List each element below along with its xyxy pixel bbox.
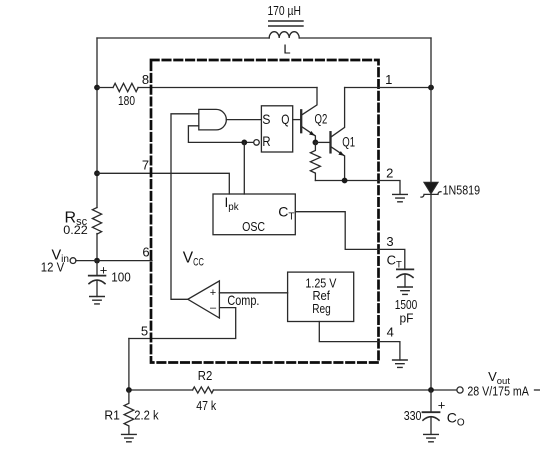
wire pin 8: [97, 87, 317, 89]
node: pin1 / output rail: [428, 85, 434, 91]
svg-text:R: R: [262, 133, 270, 149]
wire: AND lower input from R line: [188, 126, 254, 143]
IC dashed box: [151, 60, 379, 363]
svg-text:Q2: Q2: [315, 112, 328, 127]
svg-text:2.2 k: 2.2 k: [134, 408, 159, 423]
AND gate U1a: [199, 109, 227, 129]
svg-text:Comp.: Comp.: [227, 292, 259, 308]
resistor (Q2 emitter): [310, 142, 320, 180]
svg-text:Q1: Q1: [342, 134, 355, 149]
node: R line junction: [241, 140, 247, 146]
capacitor CO 330: [423, 390, 440, 434]
wire: Q1 base: [315, 141, 329, 143]
svg-text:L: L: [283, 41, 290, 56]
transistor Q1: [331, 88, 345, 181]
svg-text:6: 6: [142, 245, 149, 260]
svg-text:R1: R1: [104, 408, 120, 423]
svg-text:1: 1: [385, 72, 392, 87]
svg-text:+: +: [100, 263, 108, 278]
transistor Q2: [301, 88, 317, 143]
svg-text:1N5819: 1N5819: [443, 182, 481, 197]
svg-text:330: 330: [404, 408, 422, 423]
wire: Q to Q2 base: [293, 119, 300, 121]
ground (pin 4): [393, 360, 408, 367]
wire pin 5: [129, 308, 236, 339]
svg-text:7: 7: [142, 158, 149, 173]
svg-text:100: 100: [111, 270, 131, 285]
wire: bottom rail: [129, 389, 457, 391]
svg-text:3: 3: [386, 234, 393, 249]
svg-text:2: 2: [386, 166, 393, 181]
ground (pin 2): [393, 194, 408, 201]
svg-text:R2: R2: [198, 368, 213, 383]
node: Vin junction: [94, 258, 100, 264]
node: Q1 emitter junction: [342, 178, 348, 184]
svg-text:OSC: OSC: [242, 219, 265, 234]
svg-text:–: –: [210, 302, 217, 314]
svg-text:CT: CT: [387, 252, 402, 270]
node: pin8 junction: [94, 85, 100, 91]
svg-text:0.22: 0.22: [63, 223, 88, 237]
svg-text:VCC: VCC: [183, 249, 204, 268]
capacitor CT 1500 pF: [397, 269, 413, 287]
terminal Vout: [457, 387, 463, 393]
latch U1b box: [261, 106, 292, 152]
diode 1N5819: [421, 182, 441, 197]
svg-text:8: 8: [142, 72, 149, 87]
node: output junction: [428, 387, 434, 393]
svg-text:+: +: [438, 398, 446, 413]
wire: R junction to OSC: [243, 142, 245, 194]
svg-text:S: S: [262, 111, 270, 127]
resistor R1 2.2k: [124, 390, 134, 434]
ground (CO): [424, 434, 439, 441]
wire: output stub at edge: [535, 389, 540, 391]
resistor Rsc 0.22: [92, 208, 101, 235]
wire pin 7: [97, 173, 229, 194]
svg-text:47 k: 47 k: [196, 398, 216, 413]
node: feedback junction: [126, 387, 132, 393]
wire pin 1: [345, 87, 431, 89]
wire: top rail: [97, 37, 431, 39]
svg-text:+: +: [210, 287, 216, 299]
wire pin 3: [295, 212, 405, 270]
wire: AND output to S: [226, 119, 261, 121]
resistor 180: [113, 83, 138, 91]
oscillator block OSC: [213, 194, 295, 235]
node: Q2 emitter / Q1 base: [313, 140, 319, 146]
ground (R1): [122, 434, 137, 441]
capacitor 100: [89, 261, 106, 297]
wire: comparator + input to reference: [219, 292, 287, 294]
ground (CT cap): [398, 287, 413, 294]
wire pin 2: [315, 181, 400, 195]
wire pin 6: [76, 260, 152, 262]
svg-text:170 µH: 170 µH: [267, 3, 301, 18]
wire: pin5 drop to bottom rail: [128, 339, 130, 391]
svg-text:Q: Q: [281, 111, 289, 127]
wire: output rail: [430, 38, 432, 390]
reference regulator block: [288, 272, 354, 321]
inductor L: [269, 21, 303, 38]
svg-text:Reg: Reg: [312, 301, 331, 316]
terminal Vin: [70, 258, 76, 264]
svg-text:CO: CO: [447, 410, 465, 429]
svg-text:28 V/175 mA: 28 V/175 mA: [467, 383, 529, 398]
svg-text:Ipk: Ipk: [225, 195, 239, 213]
wire pin 4: [319, 322, 400, 361]
svg-text:4: 4: [387, 324, 394, 339]
op-amp comparator: [188, 281, 220, 318]
svg-text:5: 5: [141, 323, 148, 338]
node: pin7 junction: [94, 170, 100, 176]
R input bubble: [254, 140, 260, 146]
svg-text:12 V: 12 V: [41, 260, 65, 275]
ground (input cap): [90, 297, 105, 304]
wire: left rail: [96, 38, 98, 261]
svg-text:180: 180: [118, 93, 135, 108]
svg-text:CT: CT: [278, 204, 294, 223]
resistor R2 47k: [193, 387, 214, 393]
svg-text:pF: pF: [400, 310, 414, 325]
wire: comparator output to AND input: [171, 114, 199, 299]
